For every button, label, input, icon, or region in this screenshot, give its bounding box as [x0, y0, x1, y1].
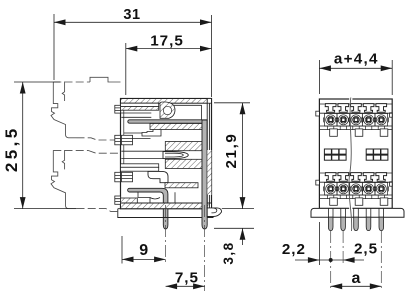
break line: [349, 98, 352, 232]
dim 31 right ext: [211, 15, 213, 97]
arrow 9 left: [122, 257, 134, 263]
arrow a left: [331, 283, 343, 289]
arrow 21,9 top: [240, 103, 246, 115]
svg-text:2,2: 2,2: [282, 241, 306, 258]
right wall outline: [207, 99, 211, 209]
row 1 latches: [325, 104, 336, 113]
side flange strip: [118, 209, 214, 218]
arrow 7,5 right: [193, 283, 205, 289]
phantom plug unit1 left profile: [51, 82, 69, 138]
phantom plug unit2 inner wall: [62, 150, 64, 169]
bottom-left hatch block: [121, 198, 138, 203]
phantom plug unit2 left profile: [51, 150, 69, 208]
second front bar hatched: [121, 107, 159, 111]
arrow 25,5 bottom: [20, 197, 26, 209]
arrow 25,5 top: [20, 82, 26, 94]
dim 9 line: [122, 258, 166, 260]
upper funnel wedge: [165, 142, 202, 151]
svg-text:a: a: [352, 270, 362, 287]
dim 31 line: [54, 21, 212, 23]
dim 2,2 left ext: [318, 222, 320, 265]
row 2 segmented band: [319, 195, 392, 199]
svg-text:21,9: 21,9: [223, 133, 240, 169]
arrow 31 left: [54, 19, 66, 25]
dim 3,8 bottom ext: [214, 227, 254, 229]
dim 21,9 top ext: [214, 102, 250, 104]
arrow 31 right: [200, 19, 212, 25]
top-right corner step: [207, 99, 211, 104]
row 2 contacts: [323, 183, 338, 196]
dim 25,5 line: [22, 82, 24, 209]
front pins: [328, 217, 333, 230]
pin lines through flange: [328, 208, 383, 217]
dim 17,5 line: [126, 48, 212, 50]
body outline: [121, 99, 212, 209]
dim 9 left ext: [121, 236, 123, 264]
arrow 9 right: [154, 257, 166, 263]
middle grid left: [324, 149, 346, 160]
break gap bottom edge: [349, 207, 352, 209]
lower pocket steps: [138, 192, 175, 203]
arrow a+4,4 left: [319, 65, 331, 71]
row 1 contacts: [323, 114, 338, 127]
lower hatch bar above pin: [165, 183, 198, 188]
dim 21,9 line: [242, 103, 244, 209]
break gap top edge: [349, 98, 352, 100]
phantom plug unit2 top dashed line: [53, 149, 88, 151]
top wall hatched: [121, 99, 208, 104]
svg-text:31: 31: [123, 7, 140, 23]
left side tab: [316, 111, 320, 116]
svg-text:a+4,4: a+4,4: [334, 51, 379, 68]
row 1 feet: [330, 129, 338, 136]
upper chamber lines: [160, 105, 202, 119]
dim 25,5 bottom ext: [14, 208, 76, 210]
funnel channel lines: [121, 151, 165, 158]
lower contact pin with elbow and pin 1 vertical: [128, 188, 168, 229]
inner front wall line: [123, 110, 125, 164]
dim a+4,4 left ext: [318, 60, 320, 94]
inner wall stripe bands: [122, 135, 133, 145]
second front bar white: [121, 103, 159, 106]
lower front double bar: [121, 164, 159, 168]
dim 2,2/2,5 line: [295, 259, 364, 261]
row 1 segmented band: [319, 126, 392, 130]
centerline pin2: [204, 205, 206, 291]
arrow 2,5 pointing left: [343, 257, 355, 263]
phantom plug unit1 bottom line: [69, 137, 77, 139]
front centerline pin2: [342, 231, 344, 266]
dim 21,9 / 3,8 shared bottom ext: [222, 208, 254, 210]
arrow 17,5 left: [126, 46, 138, 52]
row 2 latches: [325, 173, 336, 182]
svg-text:7,5: 7,5: [175, 269, 199, 286]
front body outline: [319, 99, 392, 208]
arrow a right: [370, 283, 382, 289]
phantom plug unit2 bottom line (merges with 25,5 extension): [69, 208, 77, 210]
lower spring curl: [148, 171, 168, 182]
front centerline pin1: [330, 231, 332, 290]
front face latch blocks (striped): [115, 105, 133, 204]
arrow 17,5 right: [200, 46, 212, 52]
centerline pin1: [165, 205, 167, 264]
arrow 21,9 bottom / 3,8 top: [240, 197, 246, 209]
bottom wall hatched: [121, 203, 212, 209]
dim a+4,4 right ext: [391, 60, 393, 95]
pin 2 vertical (right): [202, 120, 207, 229]
front centerline pin5: [380, 231, 382, 290]
dim 7,5 line: [166, 285, 205, 287]
phantom plug unit1 top dashed line with latch step: [51, 77, 121, 211]
lower funnel wedge: [165, 159, 202, 168]
row separators: [319, 104, 392, 126]
row 2 feet: [330, 198, 338, 205]
svg-text:2,5: 2,5: [354, 241, 378, 258]
dim a line: [331, 285, 382, 287]
svg-text:3,8: 3,8: [221, 241, 236, 264]
dim 17,5 ext left: [125, 43, 127, 95]
flange tab right: [207, 208, 221, 217]
pin tip lens: [163, 152, 188, 159]
svg-text:17,5: 17,5: [150, 32, 184, 49]
middle grid right: [366, 149, 388, 160]
arrow 2,2 pointing right: [308, 257, 320, 263]
mid hatch bar: [150, 124, 202, 130]
svg-text:9: 9: [139, 242, 149, 259]
upper contact pin: [128, 120, 207, 123]
phantom plug unit1 inner wall: [62, 82, 64, 102]
dim 31 extension left: [53, 14, 55, 80]
dim 25,5 top ext: [14, 81, 60, 83]
arrow 3,8 bottom: [240, 228, 246, 240]
upper chamber dome with hatched crescent: [160, 102, 175, 118]
dim a+4,4 line: [319, 67, 392, 69]
dim 3,8 line below: [242, 228, 244, 245]
shelf line 1: [115, 113, 151, 139]
flange strip: [311, 208, 404, 217]
svg-text:25,5: 25,5: [2, 125, 21, 172]
latch step upper: [142, 128, 161, 136]
arrow a+4,4 right: [381, 65, 393, 71]
arrow 7,5 left: [166, 283, 178, 289]
dot 2,2 at pin1 centerline: [329, 258, 333, 262]
